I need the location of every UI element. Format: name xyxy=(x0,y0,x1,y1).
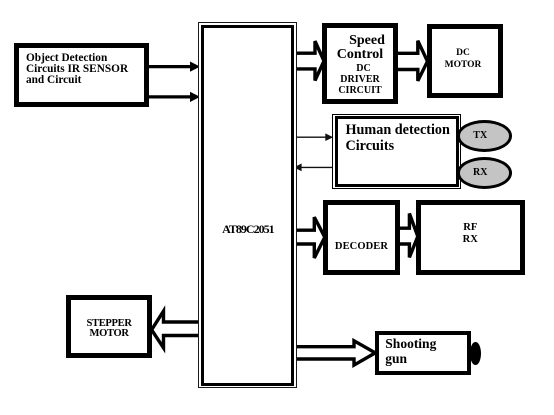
block: Shooting gun xyxy=(375,331,471,375)
block: Object Detection Circuits IR SENSOR and Circuit xyxy=(14,43,149,107)
block: Human detection Circuits xyxy=(332,114,461,189)
block: Stepper Motor xyxy=(66,295,152,358)
arrow: AT89C2051 to Speed Control (block arrow) xyxy=(293,41,324,80)
arrow: AT89C2051 to Shooting gun (block arrow) xyxy=(294,341,375,365)
block: Speed Control DC Driver Circuit xyxy=(322,23,398,104)
arrow: Decoder to RF RX (block arrow) xyxy=(397,214,418,258)
node: gun barrel xyxy=(470,342,481,365)
node: RX receiver xyxy=(457,157,513,189)
wire: IR sensor line 1 to AT89C2051 xyxy=(148,62,200,72)
block: RF RX xyxy=(416,200,525,275)
block: DC Motor xyxy=(427,24,503,98)
block: AT89C2051 microcontroller xyxy=(198,22,296,388)
block: Decoder xyxy=(323,200,400,275)
arrow: AT89C2051 to Stepper Motor (block arrow, left) xyxy=(152,311,202,348)
wire: Human detection circuits to AT89C2051 xyxy=(294,164,334,172)
node: TX transmitter xyxy=(457,120,513,152)
arrow: AT89C2051 to Decoder (block arrow) xyxy=(293,217,325,258)
arrow: Speed Control to DC Motor (block arrow) xyxy=(394,41,428,81)
wire: AT89C2051 to Human detection circuits xyxy=(295,133,333,141)
wire: IR sensor line 2 to AT89C2051 xyxy=(148,92,200,102)
